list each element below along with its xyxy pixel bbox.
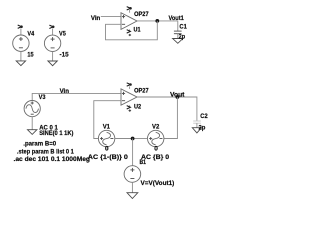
svg-text:C2: C2 xyxy=(200,113,208,120)
svg-text:V5: V5 xyxy=(59,30,66,37)
svg-text:V2: V2 xyxy=(152,123,160,130)
svg-text:C1: C1 xyxy=(179,24,187,31)
svg-text:2p: 2p xyxy=(179,33,186,40)
svg-text:.ac dec 101 0.1 1000Meg: .ac dec 101 0.1 1000Meg xyxy=(14,156,91,163)
svg-text:2p: 2p xyxy=(199,125,206,132)
svg-text:SINE(0 1 1K): SINE(0 1 1K) xyxy=(39,130,73,137)
svg-text:V3: V3 xyxy=(39,94,46,101)
svg-text:.param B=0: .param B=0 xyxy=(23,140,56,147)
svg-text:B1: B1 xyxy=(140,159,147,166)
svg-text:V4: V4 xyxy=(27,30,34,37)
svg-text:.step param B list 0 1: .step param B list 0 1 xyxy=(17,148,74,155)
svg-text:0: 0 xyxy=(105,145,109,152)
svg-text:V1: V1 xyxy=(103,123,111,130)
svg-text:-15: -15 xyxy=(60,51,69,58)
svg-text:0: 0 xyxy=(154,145,158,152)
svg-text:OP27: OP27 xyxy=(134,88,149,95)
svg-text:Vout1: Vout1 xyxy=(169,15,185,22)
svg-text:V=V(Vout1): V=V(Vout1) xyxy=(141,180,175,187)
svg-text:Vin: Vin xyxy=(91,15,100,22)
svg-text:AC {1-(B)} 0: AC {1-(B)} 0 xyxy=(88,154,129,161)
svg-text:U2: U2 xyxy=(134,103,141,110)
svg-text:U1: U1 xyxy=(134,27,141,34)
svg-text:OP27: OP27 xyxy=(134,11,149,18)
svg-text:15: 15 xyxy=(27,51,34,58)
